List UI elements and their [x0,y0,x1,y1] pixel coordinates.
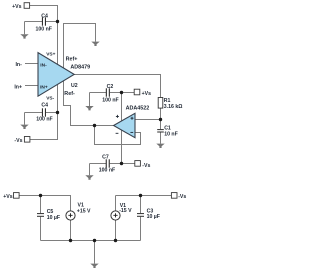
svg-text:100 nF: 100 nF [35,27,51,33]
svg-text:IN+: IN+ [40,84,48,90]
svg-text:-15 V: -15 V [119,208,132,214]
svg-text:10 nF: 10 nF [164,132,178,138]
svg-text:+15 V: +15 V [77,208,91,214]
svg-text:U2: U2 [71,83,78,89]
svg-text:AD8479: AD8479 [70,64,90,70]
svg-text:C4: C4 [41,102,48,108]
svg-text:VS-: VS- [46,95,54,101]
svg-text:100 nF: 100 nF [102,98,118,104]
svg-text:C2: C2 [107,84,114,90]
svg-text:Ref-: Ref- [64,91,75,97]
svg-text:Ref+: Ref+ [66,57,78,63]
svg-text:10 µF: 10 µF [147,214,160,220]
svg-text:100 nF: 100 nF [99,168,115,174]
svg-text:-Vs: -Vs [178,194,186,200]
svg-text:-Vs: -Vs [142,163,150,169]
svg-text:10 µF: 10 µF [47,215,60,221]
svg-text:C7: C7 [102,154,109,160]
svg-text:C4: C4 [41,13,48,19]
svg-text:+Vs: +Vs [12,4,21,10]
svg-text:In-: In- [15,62,22,68]
svg-text:+Vs: +Vs [3,194,12,200]
svg-text:ADA4522: ADA4522 [126,106,150,112]
svg-text:-Vs: -Vs [14,138,22,144]
svg-text:In+: In+ [14,84,22,90]
svg-text:+Vs: +Vs [142,91,151,97]
svg-text:IN-: IN- [40,62,47,68]
svg-text:VS+: VS+ [46,51,55,57]
svg-text:100 nF: 100 nF [36,117,52,123]
svg-text:3.16 kΩ: 3.16 kΩ [164,104,183,110]
